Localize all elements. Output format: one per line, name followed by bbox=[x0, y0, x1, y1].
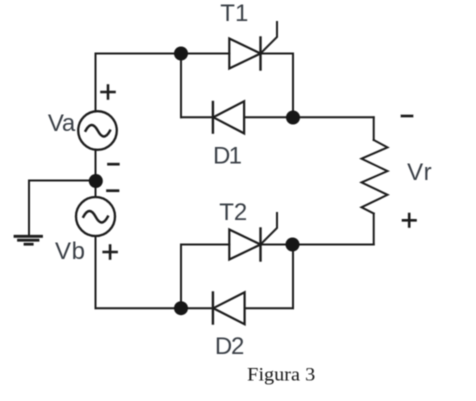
svg-text:D1: D1 bbox=[213, 142, 242, 169]
svg-text:Figura 3: Figura 3 bbox=[247, 364, 315, 385]
svg-text:Vb: Vb bbox=[55, 238, 85, 265]
svg-text:T2: T2 bbox=[219, 199, 247, 226]
svg-text:Va: Va bbox=[48, 110, 76, 137]
svg-text:T1: T1 bbox=[220, 0, 248, 27]
svg-text:D2: D2 bbox=[215, 333, 245, 360]
svg-text:Vr: Vr bbox=[407, 159, 432, 186]
